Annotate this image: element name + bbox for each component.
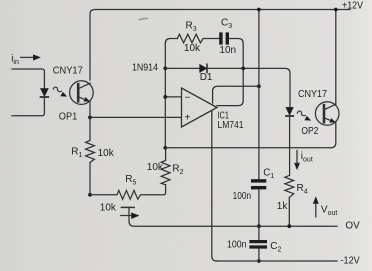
wire +12V branch vertical down to C1 <box>258 10 260 180</box>
pencil smudge <box>139 18 148 20</box>
node D1 line left junction <box>163 67 167 71</box>
svg-text:OP1: OP1 <box>59 112 78 123</box>
svg-text:10k: 10k <box>147 162 164 173</box>
resistor R4 1k <box>285 175 294 226</box>
wire input top stub <box>12 69 44 83</box>
light arrow into OP2 <box>297 111 311 121</box>
node V+ branch junction <box>257 84 261 88</box>
wire -12V rail <box>217 260 337 262</box>
node C1 / 0V junction <box>257 224 261 228</box>
wire C2 leads <box>258 226 260 261</box>
node C2 / -12V junction <box>257 259 261 263</box>
op-amp V+ pin wire to +12V branch <box>213 86 259 103</box>
node A: OP1 emitter / R1 / + input junction <box>88 116 92 120</box>
i_out arrow <box>294 150 299 169</box>
svg-text:CNY17: CNY17 <box>298 89 327 100</box>
i_in arrow <box>21 55 41 60</box>
light arrow into OP1 <box>53 87 67 97</box>
resistor R5 + wire to R2 <box>90 185 166 199</box>
trimmer 10k (offset null) <box>121 207 139 218</box>
svg-text:-12V: -12V <box>341 256 360 267</box>
wire OP2 collector from +12V rail <box>335 10 337 105</box>
resistor R3 10k <box>177 34 219 43</box>
svg-text:OP2: OP2 <box>301 126 318 137</box>
wire to + input <box>90 116 181 118</box>
wire C1 bottom to 0V <box>258 189 260 226</box>
wire feedback top right corner down to D1 line <box>229 39 243 69</box>
node R4 / 0V junction <box>287 224 291 228</box>
svg-text:−: − <box>185 93 191 104</box>
svg-text:+12V: +12V <box>342 0 363 11</box>
wire op-amp output up to feedback junction <box>217 68 243 105</box>
svg-text:10n: 10n <box>219 45 236 56</box>
wire +12V rail <box>90 10 350 81</box>
svg-text:10k: 10k <box>98 148 115 159</box>
resistor R1 10k <box>86 117 95 194</box>
V_out arrow <box>313 197 318 217</box>
svg-text:1N914: 1N914 <box>132 63 158 74</box>
op-amp V- pin wire down to -12V <box>212 111 217 261</box>
svg-text:D1: D1 <box>200 72 213 83</box>
svg-text:10k: 10k <box>100 202 117 213</box>
LED of OP2 <box>286 107 293 175</box>
wire feedback top (R3/C3) left corner <box>165 39 177 44</box>
svg-text:LM741: LM741 <box>218 120 244 131</box>
wire D1 line to OP2 LED <box>165 68 290 107</box>
svg-text:CNY17: CNY17 <box>53 66 83 77</box>
capacitor C2 100n <box>249 240 267 249</box>
transistor OP1 (phototransistor of CNY17) <box>70 81 94 117</box>
op-amp U1 triangle <box>182 88 218 127</box>
node R1/R5 junction <box>88 193 92 197</box>
svg-text:OV: OV <box>345 221 360 232</box>
wire OP2 emitter down to feedback line <box>331 122 336 147</box>
node R2 / inverting line / OP2 emitter feedback junction <box>163 146 167 150</box>
wire inverting-input vertical <box>164 44 166 148</box>
node +12V rail end <box>334 8 338 12</box>
svg-text:10k: 10k <box>184 43 201 54</box>
wire OP2 emitter feedback line <box>165 147 330 149</box>
capacitor C1 100n <box>251 179 266 189</box>
op-amp minus input wire <box>165 96 181 98</box>
capacitor C3 10n <box>219 32 229 44</box>
svg-text:1k: 1k <box>277 201 289 212</box>
diode D1 1N914 <box>200 64 207 72</box>
node D1-line / output / C3 junction <box>241 67 245 71</box>
wire input bottom stub <box>12 103 44 116</box>
node +12V rail tap <box>257 8 261 12</box>
transistor OP2 (phototransistor of CNY17) <box>315 102 339 126</box>
LED of OP1 <box>41 83 49 103</box>
svg-text:+: + <box>185 113 191 124</box>
wire 0V rail from trimmer <box>129 207 337 226</box>
svg-text:100n: 100n <box>227 240 247 251</box>
resistor R2 10k <box>161 148 170 185</box>
node minus input junction <box>163 95 167 99</box>
svg-text:100n: 100n <box>233 191 252 202</box>
